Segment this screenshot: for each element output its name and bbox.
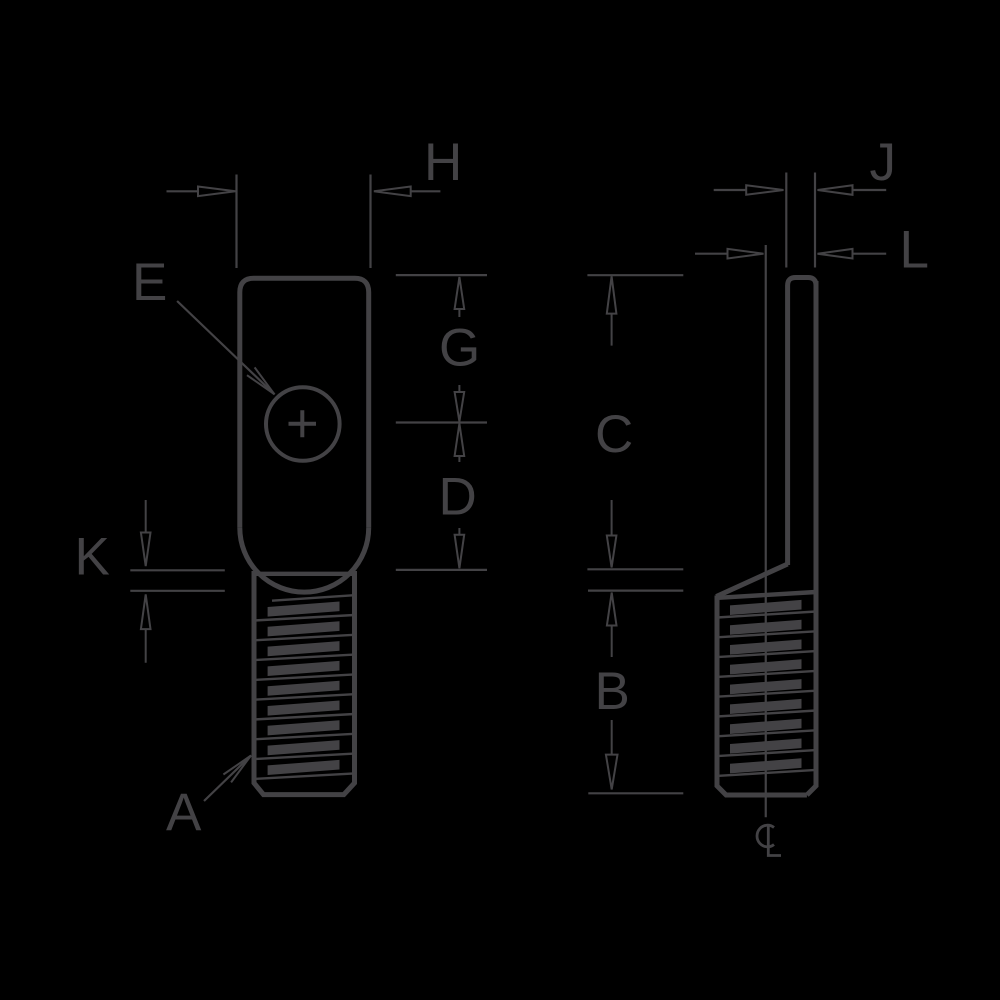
side view thread root bars <box>730 600 802 774</box>
dimension J left line and arrow <box>714 189 747 191</box>
dimension G down arrow <box>455 385 465 422</box>
dimension L right arrow and line <box>818 249 853 259</box>
dimension K upper arrow <box>141 500 151 566</box>
front view thread crest lines <box>254 595 355 779</box>
side view right wall <box>807 281 816 795</box>
side view thread crest lines <box>717 612 816 776</box>
svg-text:D: D <box>439 468 477 527</box>
svg-text:B: B <box>595 662 630 721</box>
E leader line <box>177 301 274 394</box>
dimension H right arrow and line <box>374 187 411 197</box>
svg-text:H: H <box>424 133 462 192</box>
dimension B up arrow <box>607 593 617 658</box>
extension line tab left <box>235 175 237 269</box>
svg-text:G: G <box>439 319 480 378</box>
side view tab strip top and faces <box>788 278 816 566</box>
E leader arrowhead <box>247 367 275 394</box>
svg-text:L: L <box>900 221 929 280</box>
extension line strip left face <box>785 173 787 268</box>
dimension C up arrow <box>607 276 617 345</box>
front view shank top shoulder line <box>254 572 355 576</box>
dimension C down arrow <box>607 500 617 568</box>
svg-text:J: J <box>870 133 897 192</box>
side view shoulder diagonal <box>716 564 787 597</box>
side view left wall and bottom <box>717 596 807 796</box>
svg-text:K: K <box>75 528 110 587</box>
hole circle E <box>266 387 340 461</box>
A leader line <box>204 756 251 802</box>
dimension K lower arrow <box>141 594 151 662</box>
svg-text:E: E <box>132 253 167 312</box>
front view tab outline <box>240 278 369 527</box>
svg-text:A: A <box>166 783 202 842</box>
front view tab bottom arc <box>240 528 369 592</box>
G D reference lines <box>396 275 487 570</box>
C B reference lines <box>587 275 683 793</box>
front view shank walls and chamfered bottom <box>254 571 355 795</box>
dimension G up arrow <box>455 277 465 317</box>
centerline <box>765 245 767 817</box>
K reference lines <box>130 570 225 591</box>
side view thread start shoulder line <box>718 592 816 598</box>
front view thread root bars <box>268 602 340 776</box>
dimension B down arrow <box>606 720 618 789</box>
dimension L left line and arrow <box>695 253 728 255</box>
A leader arrowhead <box>223 756 251 783</box>
dimension J right arrow and line <box>818 185 853 195</box>
hole center cross <box>289 410 317 437</box>
extension line tab right <box>369 175 371 269</box>
svg-text:C: C <box>595 405 633 464</box>
centerline symbol <box>757 825 774 847</box>
extension line strip right face <box>814 173 816 268</box>
dimension H left line and arrow <box>167 190 199 192</box>
dimension D up arrow <box>455 424 465 463</box>
dimension D down arrow <box>455 528 465 568</box>
